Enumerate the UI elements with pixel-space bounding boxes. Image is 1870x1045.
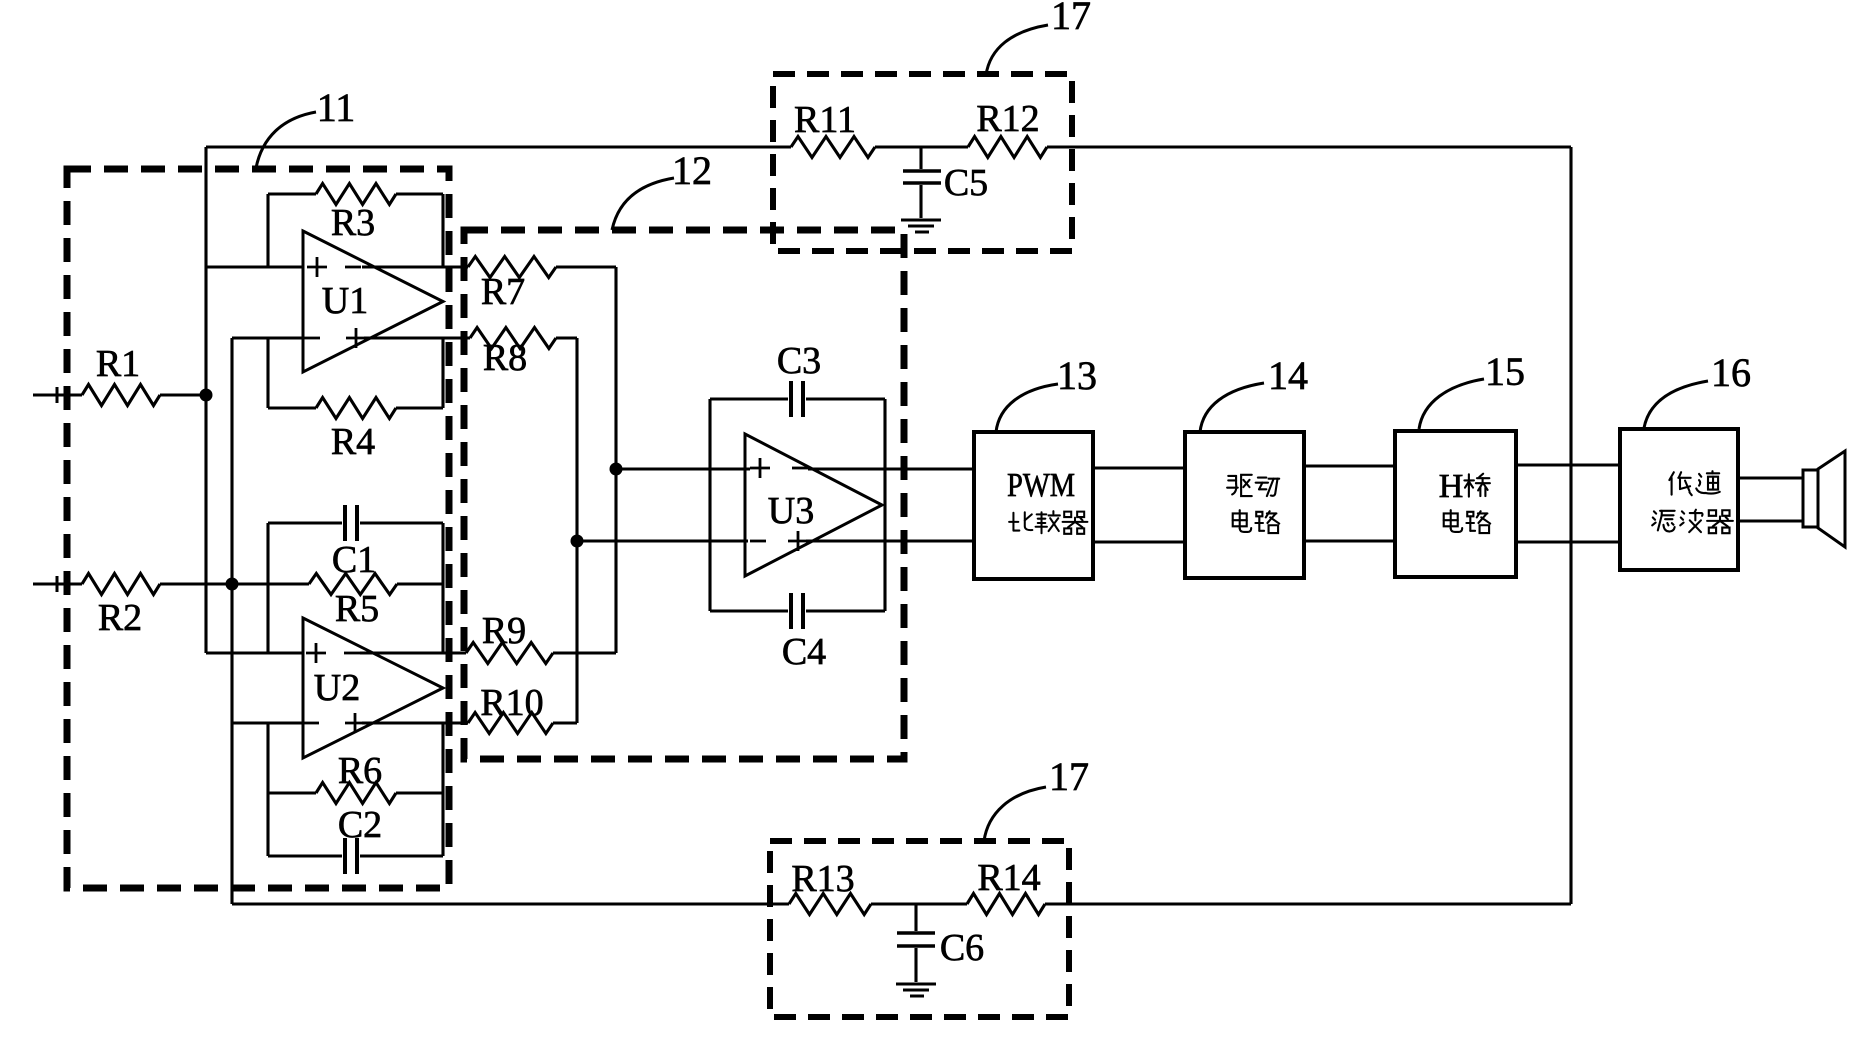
svg-text:R2: R2	[98, 597, 142, 639]
node U3 - input	[571, 535, 584, 548]
svg-text:13: 13	[1057, 353, 1097, 398]
capacitor C6	[897, 904, 984, 982]
resistor R3	[268, 184, 443, 268]
svg-text:R1: R1	[96, 343, 140, 385]
block 13 PWM comparator	[974, 432, 1093, 579]
wire U3 + input	[616, 467, 750, 470]
wire U3 - input	[577, 539, 748, 542]
svg-text:R5: R5	[335, 588, 379, 630]
node after R2	[226, 578, 239, 591]
wire U2 + output	[362, 721, 468, 724]
svg-text:R7: R7	[481, 271, 525, 313]
svg-text:U3: U3	[768, 490, 814, 532]
ground (C5)	[901, 220, 941, 232]
wire R9 to vertical	[553, 651, 616, 654]
wire LPF to speaker (bottom)	[1738, 519, 1803, 522]
dashed box 17 (bottom feedback network)	[770, 841, 1069, 1017]
wire U3 - output	[808, 467, 974, 470]
resistor R8	[470, 328, 556, 380]
svg-text:R13: R13	[791, 858, 854, 900]
wire H-bridge to LPF (bottom)	[1516, 540, 1620, 543]
capacitor C4	[782, 593, 826, 673]
wire driver to H-bridge (top)	[1304, 464, 1395, 467]
resistor R14	[967, 857, 1045, 915]
wire R1 to node	[160, 393, 206, 396]
wire driver to H-bridge (bottom)	[1304, 539, 1395, 542]
svg-text:C4: C4	[782, 631, 826, 673]
capacitor C2	[268, 804, 443, 874]
label 17 leader (bottom)	[984, 754, 1089, 841]
wire top feedback	[206, 145, 1571, 148]
label 11 leader	[256, 85, 355, 168]
label 13 leader	[996, 353, 1097, 432]
capacitor C3	[777, 340, 821, 417]
capacitor C1	[268, 505, 443, 581]
dashed box 11 (input op-amp stage)	[67, 169, 449, 888]
input terminal IN-	[33, 576, 82, 592]
wire R7 to vertical	[556, 265, 616, 268]
svg-text:R10: R10	[480, 682, 543, 724]
svg-text:15: 15	[1485, 349, 1525, 394]
resistor R7	[468, 257, 556, 314]
wire R2 to node	[160, 582, 268, 585]
wire PWM to driver (top)	[1093, 466, 1185, 469]
op-amp U3 marks	[750, 458, 808, 551]
wire H-bridge to LPF (top)	[1516, 463, 1620, 466]
wire U1 - output	[362, 265, 468, 268]
svg-text:R3: R3	[331, 202, 375, 244]
op-amp U1 marks	[304, 257, 366, 348]
svg-text:16: 16	[1711, 350, 1751, 395]
wire summing vertical (R8+R10)	[575, 338, 578, 723]
resistor R4	[268, 338, 443, 463]
wire R6/C2 loop verticals	[268, 723, 443, 856]
svg-text:R9: R9	[482, 610, 526, 652]
wire U2 - output	[360, 651, 466, 654]
dashed box 17 (top feedback network)	[773, 74, 1072, 251]
op-amp U2	[303, 618, 443, 758]
dashed box 12 (summing integrator stage)	[464, 230, 904, 759]
ground (C6)	[896, 984, 936, 996]
svg-text:C5: C5	[944, 162, 988, 204]
label 15 leader	[1419, 349, 1525, 429]
wire LPF to speaker (top)	[1738, 476, 1803, 479]
label 12 leader	[612, 148, 712, 230]
wire U2 - input	[232, 721, 303, 724]
wire summing vertical (R7+R9)	[614, 267, 617, 653]
svg-text:R11: R11	[794, 99, 856, 141]
wire right feedback vertical	[1569, 147, 1572, 904]
capacitor C5	[903, 147, 988, 218]
wire R8 to vertical	[556, 336, 577, 339]
svg-text:12: 12	[672, 148, 712, 193]
svg-text:C2: C2	[338, 804, 382, 846]
resistor R5	[268, 574, 443, 631]
svg-text:H: H	[1439, 468, 1464, 505]
svg-text:17: 17	[1049, 754, 1089, 799]
svg-text:R4: R4	[331, 421, 375, 463]
label 17 leader (top)	[986, 0, 1091, 75]
wire R10 to vertical	[553, 721, 577, 724]
wire U1 - input	[232, 336, 303, 339]
resistor R11	[791, 99, 875, 158]
resistor R2	[82, 574, 160, 640]
block 16 low-pass filter	[1620, 429, 1738, 570]
svg-text:R12: R12	[976, 98, 1039, 140]
resistor R9	[466, 610, 553, 664]
resistor R6	[268, 750, 443, 804]
label 14 leader	[1200, 353, 1308, 432]
svg-text:C6: C6	[940, 927, 984, 969]
wire left vertical B (U1- / R2 / U2- / bottom fb)	[230, 338, 233, 904]
svg-text:R14: R14	[977, 857, 1040, 899]
svg-text:U1: U1	[322, 280, 368, 322]
svg-text:11: 11	[317, 85, 356, 130]
resistor R12	[968, 98, 1047, 158]
wire U3 + output	[806, 539, 974, 542]
block 14 driver circuit	[1185, 432, 1304, 578]
wire left vertical A (top fb / R1 / U1+ / U2+)	[206, 147, 303, 653]
wire U1 + input	[206, 265, 303, 268]
svg-text:C3: C3	[777, 340, 821, 382]
resistor R10	[468, 682, 553, 734]
wire U1 + output	[364, 336, 470, 339]
svg-text:PWM: PWM	[1007, 467, 1075, 504]
svg-text:14: 14	[1268, 353, 1308, 398]
wire PWM to driver (bottom)	[1093, 540, 1185, 543]
node after R1	[200, 389, 213, 402]
op-amp U3	[745, 434, 882, 576]
label 16 leader	[1644, 350, 1751, 428]
wire bottom feedback	[232, 902, 1571, 905]
capacitor C3 loop rect	[710, 399, 885, 611]
block 15 H-bridge circuit	[1395, 431, 1516, 577]
svg-text:C1: C1	[332, 539, 376, 581]
wire C1/R5 loop verticals	[268, 523, 443, 653]
svg-text:R6: R6	[338, 750, 382, 792]
input terminal IN+	[33, 387, 82, 403]
svg-text:U2: U2	[314, 667, 360, 709]
resistor R13	[789, 858, 871, 915]
node U3 + input	[610, 463, 623, 476]
speaker	[1803, 451, 1845, 547]
resistor R1	[82, 343, 160, 406]
svg-text:17: 17	[1051, 0, 1091, 38]
svg-text:R8: R8	[483, 337, 527, 379]
op-amp U1	[303, 231, 443, 372]
capacitor C4 loop rect	[710, 609, 885, 612]
op-amp U2 marks	[303, 643, 365, 733]
